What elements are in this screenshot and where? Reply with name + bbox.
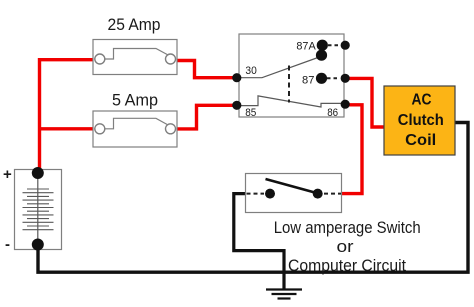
svg-text:87A: 87A — [296, 40, 316, 52]
svg-text:+: + — [3, 166, 12, 183]
battery plates — [23, 189, 54, 230]
wire: relay pin 86 down to low-amperage switch — [342, 105, 362, 194]
wire: clutch coil to ground bus and battery negative (black) — [38, 123, 468, 273]
switch S1 box — [246, 174, 342, 213]
terminal 87A contacts — [317, 40, 328, 51]
relay K1 box — [239, 34, 344, 117]
pin 87A edge dot — [341, 41, 350, 50]
pin 30 terminal dot — [232, 73, 241, 82]
svg-text:Low amperage Switch: Low amperage Switch — [274, 218, 421, 237]
pin 87 edge dot — [341, 74, 350, 83]
dashed link 87A to pin — [328, 44, 340, 46]
battery - terminal dot — [32, 239, 44, 251]
svg-text:Computer Circuit: Computer Circuit — [288, 256, 406, 275]
fuse F1 box (25 Amp) — [93, 40, 177, 75]
relay coil path: pin 85 to pin 86 — [239, 96, 344, 107]
svg-text:25 Amp: 25 Amp — [108, 15, 161, 34]
pin 86 edge dot — [341, 100, 350, 109]
battery + terminal dot — [32, 167, 44, 179]
ground — [266, 290, 302, 299]
wire: switch to chassis ground — [234, 194, 284, 289]
terminal 87 contact — [316, 73, 327, 84]
switch lever — [266, 179, 318, 193]
svg-text:-: - — [5, 236, 10, 253]
relay core dashed line — [288, 66, 290, 103]
switch contact dots — [265, 189, 275, 199]
svg-text:or: or — [337, 237, 354, 256]
battery B1 box — [15, 170, 62, 250]
label: AC Clutch Coil — [398, 92, 444, 150]
wire: battery + to fuse inputs (red) — [40, 60, 97, 173]
battery center conductor — [37, 173, 39, 245]
wire: relay pin 87 to AC clutch coil — [345, 78, 384, 127]
svg-text:AC: AC — [412, 92, 432, 109]
dashed link 87 to pin — [327, 77, 340, 79]
AC clutch coil box — [384, 86, 455, 155]
relay armature: pin 30 to 87A contact — [239, 58, 318, 78]
svg-text:Clutch: Clutch — [398, 112, 444, 129]
wire: 25A fuse output to relay pin 30 — [175, 61, 236, 78]
svg-text:87: 87 — [302, 75, 314, 87]
fuse F2 box (5 Amp) — [93, 111, 177, 147]
wire: 5A fuse output to relay pin 85 — [176, 105, 236, 129]
switch dashed leads — [247, 193, 342, 195]
svg-text:30: 30 — [245, 65, 256, 77]
svg-text:5 Amp: 5 Amp — [112, 91, 158, 110]
svg-text:85: 85 — [245, 107, 256, 119]
svg-text:86: 86 — [327, 107, 338, 119]
pin 85 terminal dot — [232, 101, 241, 110]
svg-text:Coil: Coil — [405, 132, 436, 149]
